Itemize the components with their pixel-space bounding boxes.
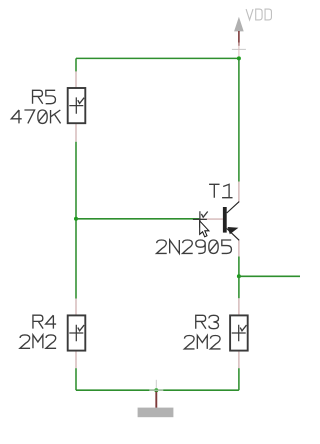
wire left rail R5 to R4 [75,142,77,299]
ground [138,380,174,417]
resistor R5 [68,71,86,141]
wire output to right edge [239,275,300,277]
wire emitter stub down [238,257,240,277]
label R4 [33,315,56,328]
origin cross of T1 [193,211,207,227]
net label VDD [246,9,271,20]
wire top horizontal VDD rail [76,57,239,59]
label R3 [196,315,219,328]
power symbol VDD [232,17,246,57]
junction at VDD node [237,56,241,60]
wire left stub from top rail to R5 [75,58,77,71]
mouse cursor [200,221,209,237]
wire right rail below R3 [238,368,240,390]
resistor R4 [68,299,86,369]
wire right vertical to T1 collector [238,58,240,181]
label T1 [209,184,232,197]
junction at base node [74,217,78,221]
wire right rail down to R3 [238,276,240,298]
label R5 [33,90,56,103]
value 2M2 of R3 [184,336,220,349]
value 470K [11,110,60,123]
transistor T1 [199,182,239,257]
resistor R3 [230,298,248,368]
wire left rail below R4 [75,368,77,390]
wire bottom horizontal ground rail [76,389,239,391]
junction at ground node [154,388,158,392]
wire base horizontal [76,218,199,220]
value 2M2 of R4 [20,335,56,348]
value 2N2905 [157,240,232,253]
junction at output node [237,274,241,278]
